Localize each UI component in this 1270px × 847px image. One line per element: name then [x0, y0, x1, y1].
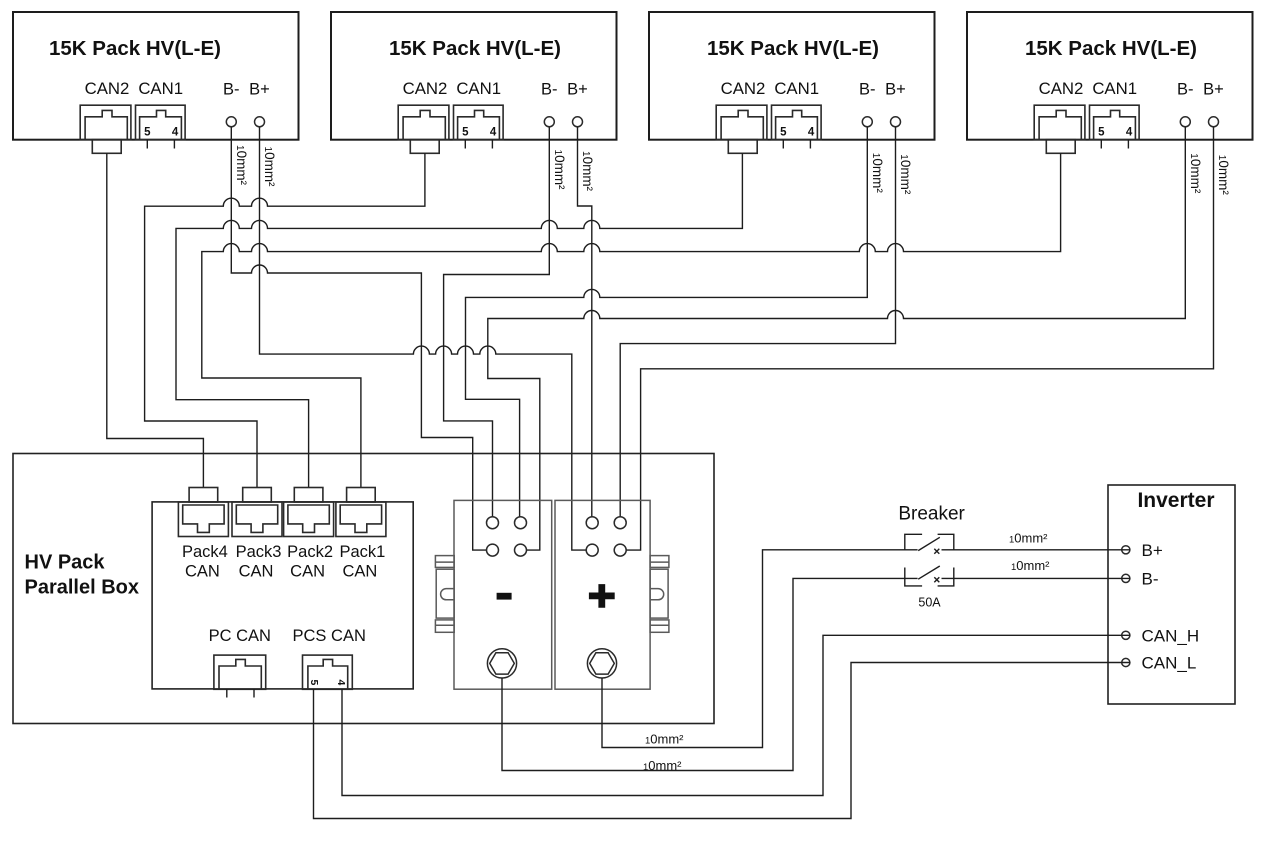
- connector Pack1 CAN port on parallel box: [336, 488, 386, 537]
- label B+ (pack P2): [567, 81, 588, 99]
- svg-text:10mm²: 10mm²: [1188, 153, 1203, 194]
- connector CAN1 socket with pins 5 and 4 (pack P1): [136, 105, 186, 148]
- svg-text:PCS CAN: PCS CAN: [293, 627, 366, 645]
- svg-text:10mm²: 10mm²: [1216, 155, 1231, 196]
- svg-text:CAN2: CAN2: [721, 79, 766, 98]
- svg-text:10mm²: 10mm²: [580, 151, 595, 192]
- label CAN1 (pack P1): [138, 79, 183, 98]
- svg-text:CAN2: CAN2: [85, 79, 130, 98]
- value label 10mm2 on B- wire at breaker: [1011, 558, 1050, 573]
- label CAN1 (pack P3): [774, 79, 819, 98]
- svg-text:CAN2: CAN2: [1039, 79, 1084, 98]
- wire pack P4 B+ to plus busbar lower-right terminal (bus at y369): [626, 127, 1213, 550]
- svg-text:15K Pack HV(L-E): 15K Pack HV(L-E): [1025, 37, 1197, 60]
- screw terminal on plus busbar at (592.2,522.7): [586, 517, 598, 529]
- battery pack box P3 "15K Pack HV(L-E)": [649, 12, 935, 140]
- svg-text:15K Pack HV(L-E): 15K Pack HV(L-E): [707, 37, 879, 60]
- svg-text:5: 5: [308, 680, 320, 686]
- label 50A: [918, 596, 941, 610]
- wire PCS CAN pin 5 to inverter CAN_L: [314, 663, 1130, 819]
- connector CAN2 socket (pack P4): [1034, 105, 1085, 153]
- svg-text:Parallel Box: Parallel Box: [25, 577, 140, 599]
- screw terminal on plus busbar at (620.2,550.1): [614, 544, 626, 556]
- minus sign on busbar: [497, 593, 512, 600]
- svg-text:CAN_L: CAN_L: [1142, 654, 1197, 673]
- svg-text:CAN: CAN: [342, 563, 377, 581]
- value label 10mm2 on B- wire of pack P4 (rotated): [1188, 153, 1203, 194]
- svg-text:PC CAN: PC CAN: [209, 627, 271, 645]
- wire PCS CAN pin 4 to inverter CAN_H: [342, 635, 1130, 795]
- value label 10mm2 on B- wire of pack P3 (rotated): [870, 153, 885, 194]
- svg-text:4: 4: [1126, 127, 1133, 139]
- CAN interface sub-box: [152, 502, 413, 689]
- label CAN_L (inverter): [1142, 654, 1197, 673]
- label B- (inverter): [1142, 570, 1159, 589]
- label CAN2 (pack P3): [721, 79, 766, 98]
- wire pack P4 CAN2 to Pack1 CAN port (bus at y251): [202, 153, 1061, 488]
- label B+ (inverter): [1142, 541, 1163, 560]
- svg-text:B+: B+: [1142, 541, 1163, 560]
- value label 10mm2 on plus stud wire: [645, 732, 684, 747]
- svg-text:B+: B+: [249, 81, 270, 99]
- svg-text:HV Pack: HV Pack: [25, 552, 106, 574]
- label B- (pack P4): [1177, 81, 1194, 99]
- inverter terminal circle CAN_L: [1122, 658, 1130, 666]
- svg-text:10mm²: 10mm²: [898, 154, 913, 195]
- svg-text:4: 4: [172, 127, 179, 139]
- svg-text:Pack4: Pack4: [182, 543, 228, 561]
- svg-text:10mm²: 10mm²: [1009, 531, 1048, 546]
- plus busbar block: [555, 500, 650, 689]
- value label 10mm2 on B- wire of pack P2 (rotated): [552, 150, 567, 191]
- connector Pack4 CAN port on parallel box: [178, 488, 228, 537]
- label Pack3 CAN: [236, 543, 282, 581]
- svg-text:5: 5: [144, 127, 151, 139]
- svg-text:B+: B+: [567, 81, 588, 99]
- label B- (pack P1): [223, 81, 240, 99]
- screw terminal on minus busbar at (520.5,550.1): [515, 544, 527, 556]
- svg-text:10mm²: 10mm²: [645, 732, 684, 747]
- battery pack box P4 "15K Pack HV(L-E)": [967, 12, 1253, 140]
- label HV Pack Parallel Box: [25, 552, 140, 599]
- wire pack P2 CAN2 to Pack3 CAN port (bus at y206): [145, 153, 425, 488]
- label B+ (pack P3): [885, 81, 906, 99]
- wire pack P4 B- to minus busbar lower-right terminal (bus at y318): [488, 127, 1186, 550]
- svg-text:CAN1: CAN1: [774, 79, 819, 98]
- svg-text:B-: B-: [1177, 81, 1194, 99]
- svg-text:Pack3: Pack3: [236, 543, 282, 561]
- minus busbar block: [454, 500, 552, 689]
- value label 10mm2 on B- wire of pack P1 (rotated): [234, 145, 249, 186]
- output stud (plus) with hex nut: [587, 649, 616, 678]
- svg-text:Pack1: Pack1: [339, 543, 385, 561]
- connector PCS CAN port with pins 5 and 4 (rotated digits): [303, 655, 353, 689]
- wire plus busbar stud to breaker pole 1 to inverter B+: [602, 550, 1130, 748]
- label Pack4 CAN: [182, 543, 228, 581]
- svg-text:10mm²: 10mm²: [262, 147, 277, 188]
- HV Pack Parallel Box outline: [13, 454, 714, 724]
- svg-text:10mm²: 10mm²: [870, 153, 885, 194]
- svg-text:4: 4: [335, 680, 347, 686]
- svg-text:B+: B+: [1203, 81, 1224, 99]
- terminal B- circle (pack P1): [226, 117, 236, 127]
- label PC CAN: [209, 627, 271, 645]
- label CAN2 (pack P4): [1039, 79, 1084, 98]
- svg-text:5: 5: [1098, 127, 1105, 139]
- svg-text:CAN_H: CAN_H: [1142, 627, 1200, 646]
- screw terminal on minus busbar at (492.5,522.7): [487, 517, 499, 529]
- svg-text:Inverter: Inverter: [1137, 489, 1214, 512]
- connector CAN1 socket with pins 5 and 4 (pack P2): [454, 105, 504, 148]
- svg-text:CAN1: CAN1: [456, 79, 501, 98]
- breaker switch pole 1 (B+): [905, 534, 954, 554]
- connector CAN1 socket with pins 5 and 4 (pack P3): [772, 105, 822, 148]
- connector PC CAN port: [214, 655, 266, 697]
- connector CAN2 socket (pack P1): [80, 105, 131, 153]
- svg-text:10mm²: 10mm²: [234, 145, 249, 186]
- terminal B- circle (pack P4): [1180, 117, 1190, 127]
- label Inverter: [1137, 489, 1214, 512]
- wire pack P1 B- to minus busbar lower-left terminal: [231, 127, 486, 550]
- screw terminal on plus busbar at (592.2,550.1): [586, 544, 598, 556]
- svg-text:5: 5: [780, 127, 787, 139]
- connector Pack2 CAN port on parallel box: [284, 488, 334, 537]
- inverter terminal circle B-: [1122, 574, 1130, 582]
- terminal B- circle (pack P3): [862, 117, 872, 127]
- screw terminal on plus busbar at (620.2,522.7): [614, 517, 626, 529]
- label B- (pack P2): [541, 81, 558, 99]
- connector Pack3 CAN port on parallel box: [232, 488, 282, 537]
- value label 10mm2 on B+ wire of pack P3 (rotated): [898, 154, 913, 195]
- value label 10mm2 on B+ wire at breaker: [1009, 531, 1048, 546]
- label B+ (pack P1): [249, 81, 270, 99]
- svg-text:CAN1: CAN1: [138, 79, 183, 98]
- connector CAN2 socket (pack P3): [716, 105, 767, 153]
- label B+ (pack P4): [1203, 81, 1224, 99]
- svg-text:10mm²: 10mm²: [1011, 558, 1050, 573]
- svg-text:15K Pack HV(L-E): 15K Pack HV(L-E): [389, 37, 561, 60]
- inverter terminal circle B+: [1122, 546, 1130, 554]
- terminal B+ circle (pack P2): [573, 117, 583, 127]
- svg-text:CAN: CAN: [185, 563, 220, 581]
- wire pack P2 B- to minus busbar upper-left terminal: [444, 127, 550, 517]
- wire pack P3 B+ to plus busbar upper-right terminal (bus at y343): [620, 127, 895, 517]
- label Pack2 CAN: [287, 543, 333, 581]
- label CAN2 (pack P2): [403, 79, 448, 98]
- svg-text:B-: B-: [1142, 570, 1159, 589]
- svg-text:4: 4: [490, 127, 497, 139]
- svg-text:B-: B-: [223, 81, 240, 99]
- value label 10mm2 on B+ wire of pack P4 (rotated): [1216, 155, 1231, 196]
- screw terminal on minus busbar at (492.5,550.1): [487, 544, 499, 556]
- label CAN_H (inverter): [1142, 627, 1200, 646]
- svg-text:B+: B+: [885, 81, 906, 99]
- value label 10mm2 on minus stud wire: [643, 758, 682, 773]
- output stud (minus) with hex nut: [487, 649, 516, 678]
- svg-text:CAN: CAN: [290, 563, 325, 581]
- svg-text:10mm²: 10mm²: [643, 758, 682, 773]
- label Breaker: [898, 504, 965, 525]
- label CAN1 (pack P2): [456, 79, 501, 98]
- DIN rail clip left: [435, 556, 454, 633]
- breaker switch pole 2 (B-): [905, 566, 954, 586]
- connector CAN2 socket (pack P2): [398, 105, 449, 153]
- wire pack P1 CAN2 to Pack4 CAN port: [107, 153, 204, 488]
- wire pack P1 B+ to plus busbar lower-left terminal (bus at y354 with 4 hops): [260, 127, 587, 550]
- svg-text:50A: 50A: [918, 596, 941, 610]
- svg-text:10mm²: 10mm²: [552, 150, 567, 191]
- battery pack box P1 "15K Pack HV(L-E)": [13, 12, 299, 140]
- svg-text:4: 4: [808, 127, 815, 139]
- connector CAN1 socket with pins 5 and 4 (pack P4): [1090, 105, 1140, 148]
- svg-text:B-: B-: [541, 81, 558, 99]
- value label 10mm2 on B+ wire of pack P2 (rotated): [580, 151, 595, 192]
- wire pack P3 CAN2 to Pack2 CAN port (bus at y228): [176, 153, 742, 488]
- svg-text:5: 5: [462, 127, 469, 139]
- label PCS CAN: [293, 627, 366, 645]
- svg-text:CAN: CAN: [239, 563, 274, 581]
- terminal B- circle (pack P2): [544, 117, 554, 127]
- svg-text:Breaker: Breaker: [898, 504, 965, 525]
- svg-text:Pack2: Pack2: [287, 543, 333, 561]
- value label 10mm2 on B+ wire of pack P1 (rotated): [262, 147, 277, 188]
- svg-text:CAN2: CAN2: [403, 79, 448, 98]
- wire minus busbar stud to breaker pole 2 to inverter B-: [502, 578, 1130, 770]
- battery pack box P2 "15K Pack HV(L-E)": [331, 12, 617, 140]
- svg-text:CAN1: CAN1: [1092, 79, 1137, 98]
- terminal B+ circle (pack P4): [1209, 117, 1219, 127]
- svg-text:15K Pack HV(L-E): 15K Pack HV(L-E): [49, 37, 221, 60]
- label Pack1 CAN: [339, 543, 385, 581]
- inverter terminal circle CAN_H: [1122, 631, 1130, 639]
- Inverter box: [1108, 485, 1235, 704]
- wire pack P2 B+ to plus busbar upper-left terminal (jog at y206): [578, 127, 592, 517]
- terminal B+ circle (pack P3): [891, 117, 901, 127]
- screw terminal on minus busbar at (520.5,522.7): [515, 517, 527, 529]
- terminal B+ circle (pack P1): [255, 117, 265, 127]
- DIN rail clip right: [650, 556, 669, 633]
- wire pack P3 B- to minus busbar upper-right terminal (bus at y297): [466, 127, 868, 517]
- label CAN1 (pack P4): [1092, 79, 1137, 98]
- label B- (pack P3): [859, 81, 876, 99]
- svg-text:B-: B-: [859, 81, 876, 99]
- label CAN2 (pack P1): [85, 79, 130, 98]
- plus sign on busbar: [589, 584, 615, 608]
